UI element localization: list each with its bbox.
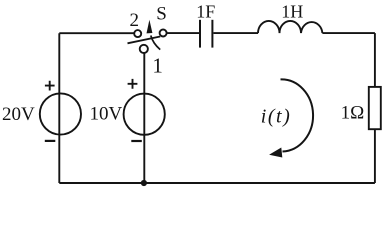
current i(t) arrowhead bbox=[269, 148, 282, 158]
junction dot (bottom node) bbox=[141, 180, 147, 186]
svg-text:2: 2 bbox=[130, 10, 140, 31]
switch contact 1 terminal circle bbox=[140, 45, 148, 53]
capacitor C=1F left plate bbox=[199, 20, 201, 48]
label minus of 20V source bbox=[45, 140, 56, 142]
svg-text:i(t): i(t) bbox=[261, 106, 291, 128]
capacitor C=1F right plate bbox=[211, 20, 213, 48]
wire top-left horizontal (corner to contact 2) bbox=[59, 32, 134, 34]
svg-text:1Ω: 1Ω bbox=[341, 102, 365, 123]
svg-text:20V: 20V bbox=[2, 104, 35, 125]
switch motion arrow shaft (arc from contact 1 toward contact 2) bbox=[151, 36, 160, 50]
svg-text:10V: 10V bbox=[90, 103, 123, 124]
wire right rail lower (resistor to bottom corner) bbox=[374, 130, 376, 183]
wire inductor to top-right corner bbox=[322, 32, 375, 34]
wire switch S to capacitor bbox=[167, 32, 199, 34]
switch motion arrowhead bbox=[147, 20, 153, 34]
resistor R=1ohm body bbox=[369, 87, 381, 129]
wire left rail (top corner down through 20V source to bottom corner) bbox=[58, 33, 60, 183]
label plus of 10V source bbox=[128, 79, 138, 89]
label plus of 20V source bbox=[45, 81, 55, 91]
label minus of 10V source bbox=[131, 140, 142, 142]
wire bottom rail bbox=[59, 182, 375, 184]
switch contact 2 terminal circle bbox=[134, 30, 141, 37]
inductor L=1H (three humps) bbox=[258, 21, 322, 33]
wire capacitor to inductor bbox=[214, 32, 259, 34]
voltage source circle 20V bbox=[40, 93, 81, 134]
switch blade bbox=[128, 37, 161, 44]
wire right rail upper (corner to resistor) bbox=[374, 33, 376, 86]
wire 10V branch (switch contact 1 down through 10V source to bottom node) bbox=[143, 53, 145, 183]
switch common terminal S circle bbox=[160, 30, 167, 37]
svg-text:1H: 1H bbox=[281, 2, 303, 22]
voltage source circle 10V bbox=[124, 94, 165, 135]
current i(t) rotation arrow arc bbox=[281, 79, 314, 151]
svg-text:1F: 1F bbox=[196, 2, 215, 22]
svg-text:S: S bbox=[156, 3, 167, 24]
svg-text:1: 1 bbox=[152, 54, 163, 78]
